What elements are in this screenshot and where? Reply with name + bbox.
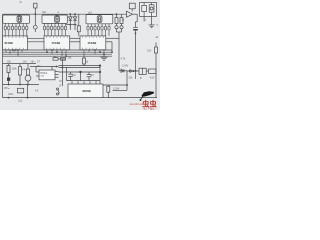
wire: mid line 3 (59, 66, 101, 68)
wire: LED join (117, 32, 122, 71)
svg-text:10n: 10n (72, 74, 77, 77)
resistor R5 (107, 85, 110, 98)
LED L1 (115, 26, 118, 32)
svg-text:1Hz ▸: 1Hz ▸ (4, 87, 10, 90)
wire: bus D (3, 55, 113, 57)
svg-text:ds2: ds2 (42, 11, 47, 14)
resistor R12 (155, 43, 158, 54)
IC U2 4518B (44, 36, 80, 50)
node: rail junction (116, 13, 118, 15)
svg-text:虫虫: 虫虫 (142, 100, 157, 109)
wire: bus B (3, 51, 113, 53)
node: big junction (79, 71, 81, 81)
svg-text:4060B: 4060B (82, 89, 92, 93)
IC U5 555 (36, 67, 59, 80)
node (126, 84, 128, 86)
wire: osc top line (3, 63, 37, 65)
svg-text:4.7k: 4.7k (121, 58, 126, 61)
display DS2 (42, 15, 67, 23)
wire: osc bottom line (3, 84, 40, 86)
LED L2 (120, 26, 123, 32)
crystal Y1 (129, 3, 135, 11)
resistor R3 (27, 64, 30, 75)
paper background (0, 0, 160, 110)
resistor R2 (19, 64, 22, 85)
diode D2 colon (73, 13, 77, 30)
svg-text:www.cndzz.com: www.cndzz.com (130, 102, 144, 106)
wire: left border rail (2, 14, 4, 97)
resistor R10 (83, 56, 86, 65)
svg-text:4.5V: 4.5V (150, 77, 155, 80)
capacitor C3 (87, 72, 92, 81)
wire: bus A (3, 49, 113, 51)
svg-text:100n: 100n (8, 93, 14, 96)
resistor R7 (77, 14, 80, 36)
display DS3 (86, 15, 113, 24)
diode D1 colon (69, 13, 73, 30)
switch S2 (139, 68, 149, 74)
transistor Q2 (25, 75, 31, 85)
svg-text:10n: 10n (37, 65, 42, 68)
resistor R8 (115, 14, 118, 26)
wire: vertical x62 (62, 59, 64, 86)
svg-text:100k: 100k (12, 68, 18, 71)
wire: hline right of U6 (103, 84, 127, 86)
svg-text:4n7: 4n7 (90, 74, 95, 77)
svg-text:4518B: 4518B (88, 41, 98, 45)
resistor R11 (120, 14, 123, 26)
svg-text:1M: 1M (23, 61, 26, 64)
IC U6 4060B (68, 81, 103, 98)
diode D4 (119, 69, 127, 72)
wire (143, 16, 145, 21)
resistor R1 (7, 64, 10, 76)
IC U3 4518B (80, 36, 119, 52)
svg-text:4518B: 4518B (52, 41, 62, 45)
svg-text:12 8V: 12 8V (122, 65, 129, 68)
wire: x100 drop (99, 66, 101, 84)
wire: lower loop (67, 67, 101, 80)
wire (135, 71, 137, 79)
wire: right column feed (135, 22, 137, 27)
wire: mid line 1 (30, 66, 59, 68)
buzzer box B1 (140, 3, 157, 17)
buffer U4 (127, 11, 138, 22)
svg-text:Cu2: Cu2 (18, 100, 23, 103)
capacitor C5 (133, 27, 138, 71)
node (132, 70, 136, 72)
svg-text:12V: 12V (147, 50, 152, 53)
tiny value labels (illegible smudges) (4, 1, 159, 103)
wire: diode junction bar (66, 24, 77, 26)
wire: mid line 2 (59, 65, 101, 67)
wire: right rail lower (155, 53, 157, 98)
node: terminal circle (129, 70, 131, 72)
display DS1 (3, 15, 30, 23)
resistor network RN2 pins under DS2 (43, 23, 66, 36)
node: bus junctions (12, 49, 113, 57)
wire: bottom ground rail (3, 97, 158, 99)
watermark logo (black cap) (140, 91, 155, 101)
svg-text:15n: 15n (31, 61, 36, 64)
svg-text:4518B: 4518B (4, 41, 14, 45)
wire: top supply rail (3, 13, 127, 15)
wire: battery feed (127, 70, 139, 72)
ground (101, 54, 108, 60)
node junctions mid (56, 65, 102, 74)
switch S1 (57, 88, 60, 95)
battery BT1 (149, 69, 157, 73)
IC U1 4518B (3, 36, 45, 50)
node: supply arrow terminal (33, 3, 37, 32)
resistor network RN1 pins under DS1 (4, 23, 28, 36)
wire: bottom link (113, 71, 128, 91)
pushbutton S3 (8, 85, 29, 99)
IC bottom pin stubs (6, 50, 104, 56)
diode D3 (7, 76, 10, 85)
ground (149, 16, 155, 27)
wire: bus C (3, 53, 113, 55)
node dots on osc bottom (8, 84, 29, 86)
wire: mid line 4 (59, 71, 101, 73)
svg-text:PCF1: PCF1 (41, 71, 48, 75)
resistor network RN3 pins under DS3 (87, 24, 110, 36)
svg-text:ds3: ds3 (88, 11, 93, 14)
pin number tick rows (5, 36, 103, 49)
capacitor C2 (68, 72, 73, 81)
resistor R9 (53, 56, 66, 60)
svg-text:12 BV: 12 BV (113, 88, 120, 91)
